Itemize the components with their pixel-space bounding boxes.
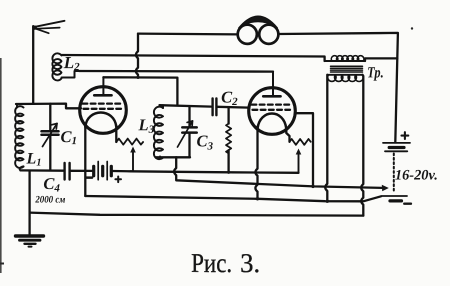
- svg-text:2000 см: 2000 см: [34, 195, 65, 206]
- svg-text:Тр.: Тр.: [367, 64, 384, 81]
- svg-text:Рис.3.: Рис.3.: [191, 248, 260, 278]
- svg-text:16-20v.: 16-20v.: [395, 167, 438, 183]
